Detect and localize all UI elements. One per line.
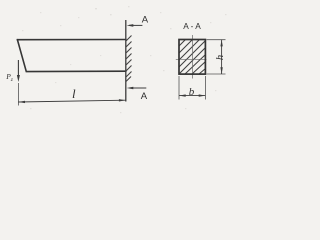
section box outline: [179, 40, 205, 75]
section box centerlines: [176, 35, 207, 79]
wall hatching: [126, 36, 132, 82]
dimension line b: [179, 94, 205, 96]
svg-text:b: b: [189, 86, 195, 98]
extension lines for h: [207, 40, 226, 74]
force arrow Pz: [17, 60, 20, 82]
wedge body outline: [17, 40, 125, 72]
section arrow A top: [127, 24, 143, 27]
svg-text:A - A: A - A: [183, 21, 201, 31]
svg-text:A: A: [142, 14, 149, 25]
wall support line: [125, 20, 127, 102]
svg-text:l: l: [72, 86, 76, 101]
section box hatching: [179, 40, 205, 75]
svg-text:A: A: [141, 91, 148, 102]
section arrow A bottom: [127, 87, 147, 90]
dimension line h: [220, 40, 222, 74]
paper background: [0, 0, 237, 125]
dimension line l: [18, 99, 125, 103]
svg-text:h: h: [215, 55, 226, 60]
scan speckles: [22, 6, 227, 113]
extension lines for b: [179, 76, 205, 100]
extension line left of dimension l: [17, 83, 19, 106]
